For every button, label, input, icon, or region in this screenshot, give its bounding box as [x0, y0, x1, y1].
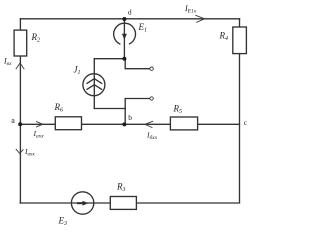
svg-text:R4: R4 — [219, 31, 229, 43]
node a (junction dot) — [18, 122, 22, 126]
current arrow I top (right) — [195, 15, 204, 22]
wire left vertical lower (R2 bottom to bottom-left corner) — [19, 56, 21, 203]
wire right vertical upper (corner to R4 top) — [239, 19, 241, 27]
svg-text:IЕ1х: IЕ1х — [184, 4, 197, 15]
EMF source E1 (circle with bottom gap, arrow down inside) — [114, 23, 136, 44]
resistor R5 — [170, 117, 197, 130]
wire J1 top vertical — [93, 59, 95, 74]
wire junction to J1 top (horizontal) — [94, 58, 124, 60]
junction dot below E1 — [122, 57, 126, 61]
wire switch terminal 2 to node b — [125, 99, 150, 125]
wire right vertical lower (R4 bottom through node c to corner) — [239, 54, 241, 203]
current arrow below node a (down) — [16, 149, 24, 154]
wire J1 bottom horizontal to b-branch — [94, 108, 125, 110]
svg-text:Iбхх: Iбхх — [146, 131, 158, 142]
svg-text:d: d — [128, 8, 132, 17]
resistor R4 — [233, 27, 247, 54]
EMF source E3 (circle on bottom wire, arrow right inside) — [71, 192, 93, 214]
wire junction down to switch terminal 1 — [125, 59, 150, 68]
wire middle row: R5 to node c — [198, 123, 240, 125]
wire top: top-left corner to top-right corner — [20, 18, 239, 20]
svg-text:E3: E3 — [58, 216, 68, 228]
svg-text:R6: R6 — [54, 102, 64, 114]
svg-text:Iвхх: Iвхх — [24, 147, 35, 158]
resistor R3 — [110, 197, 136, 210]
wire middle row: R6 to R5 — [82, 123, 171, 125]
svg-text:R5: R5 — [173, 104, 183, 116]
wire bottom: corner through E3 to R3 — [20, 202, 110, 204]
svg-text:R3: R3 — [116, 182, 126, 194]
svg-text:b: b — [128, 113, 132, 122]
svg-text:J1: J1 — [74, 65, 81, 77]
E1 arrow (down) — [122, 34, 127, 40]
node b (junction dot) — [122, 122, 126, 126]
switch terminal 1 (open circle) — [150, 67, 153, 70]
current source J1 (circle with double chevron up) — [83, 74, 105, 96]
wire bottom: R3 to bottom-right corner — [136, 202, 239, 204]
resistor R6 — [55, 117, 81, 130]
switch terminal 2 (open circle) — [150, 97, 153, 100]
wire E1 branch: node d down through E1 to junction — [123, 19, 125, 59]
svg-text:E1: E1 — [138, 22, 148, 34]
current arrow on b-c wire (left) — [145, 121, 153, 127]
svg-text:R2: R2 — [31, 32, 41, 44]
wire left vertical upper (corner to R2 top) — [19, 19, 21, 30]
current arrow below R2 (up) — [16, 63, 24, 69]
svg-text:a: a — [11, 116, 15, 125]
svg-text:c: c — [244, 118, 248, 127]
resistor R2 — [14, 30, 27, 56]
wire middle row: node a to R6 — [20, 123, 55, 125]
E3 arrow (right) — [77, 201, 88, 206]
current arrow on a-R6 wire (right) — [36, 121, 43, 127]
node d (junction dot) — [122, 17, 126, 21]
svg-text:Iахх: Iахх — [33, 129, 45, 140]
svg-text:Iвх: Iвх — [3, 57, 12, 68]
wire J1 bottom vertical — [93, 96, 95, 109]
